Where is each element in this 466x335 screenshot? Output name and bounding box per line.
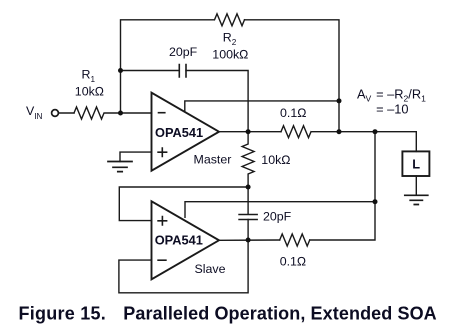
pin minus slave bbox=[158, 259, 166, 261]
svg-text:20pF: 20pF bbox=[169, 45, 198, 59]
load box L bbox=[402, 151, 429, 176]
wire cap to slave output bbox=[247, 220, 249, 241]
resistor R1 bbox=[74, 107, 104, 119]
ground load bbox=[405, 195, 428, 204]
wire master output line bbox=[219, 131, 281, 133]
wire slave feedback loop bbox=[119, 240, 248, 293]
node dot cap tap bbox=[118, 68, 123, 73]
node dot slave plus bbox=[246, 185, 251, 190]
node dot output to load bbox=[373, 129, 378, 134]
node dot feedback junction upper bbox=[337, 98, 342, 103]
svg-text:OPA541: OPA541 bbox=[155, 125, 203, 140]
svg-text:10kΩ: 10kΩ bbox=[261, 153, 291, 167]
wire top feedback run bbox=[121, 20, 215, 113]
capacitor C2 20pF vertical bbox=[239, 187, 257, 220]
wire 20pF right down to output node bbox=[186, 71, 248, 132]
wire L to ground bbox=[415, 176, 417, 195]
svg-text:100kΩ: 100kΩ bbox=[212, 47, 248, 61]
wire ground to noninverting input bbox=[120, 152, 152, 161]
svg-text:Slave: Slave bbox=[195, 262, 226, 276]
pin plus master bbox=[158, 148, 167, 156]
resistor R2 bbox=[215, 14, 245, 26]
wire slave plus branch bbox=[119, 187, 248, 221]
input terminal VIN bbox=[52, 110, 59, 117]
resistor 0.1R master bbox=[281, 126, 311, 138]
wire R1 to inverting input bbox=[105, 112, 152, 114]
wire 20pF left bbox=[121, 70, 180, 72]
svg-text:20pF: 20pF bbox=[263, 209, 292, 223]
node dot minus-input bbox=[118, 111, 123, 116]
svg-text:0.1Ω: 0.1Ω bbox=[280, 254, 307, 268]
svg-text:Master: Master bbox=[194, 153, 232, 167]
svg-text:R2: R2 bbox=[223, 31, 237, 47]
capacitor C1 20pF bbox=[179, 65, 186, 78]
wire VIN to R1 bbox=[59, 112, 75, 114]
op-amp U2 slave triangle bbox=[152, 201, 220, 279]
wire slave 0.1R to output node bbox=[310, 132, 375, 240]
svg-text:OPA541: OPA541 bbox=[155, 232, 203, 247]
node dot slave tap join bbox=[373, 199, 378, 204]
svg-text:10kΩ: 10kΩ bbox=[75, 85, 105, 99]
svg-text:= –10: = –10 bbox=[376, 101, 408, 116]
resistor 10k vertical bbox=[242, 132, 254, 187]
node dot feedback on output line bbox=[337, 129, 342, 134]
wire slave top-edge tap bbox=[185, 202, 375, 218]
pin minus master bbox=[159, 112, 165, 114]
op-amp U1 master triangle bbox=[152, 93, 220, 171]
svg-text:Figure 15.Paralleled Operation: Figure 15.Paralleled Operation, Extended… bbox=[19, 304, 437, 324]
node dot master output bbox=[246, 129, 251, 134]
pin plus slave bbox=[158, 217, 167, 225]
resistor 0.1R slave bbox=[280, 234, 310, 246]
node dot slave output bbox=[246, 238, 251, 243]
wire master top-edge tap bbox=[185, 101, 339, 111]
svg-text:R1: R1 bbox=[82, 68, 96, 84]
ground master bbox=[108, 162, 132, 172]
wire slave output line bbox=[219, 239, 280, 241]
svg-text:VIN: VIN bbox=[26, 104, 43, 121]
svg-text:L: L bbox=[412, 157, 420, 172]
wire output to L branch bbox=[312, 132, 416, 152]
wire R2 right to node bbox=[245, 20, 340, 132]
svg-text:0.1Ω: 0.1Ω bbox=[280, 106, 307, 120]
